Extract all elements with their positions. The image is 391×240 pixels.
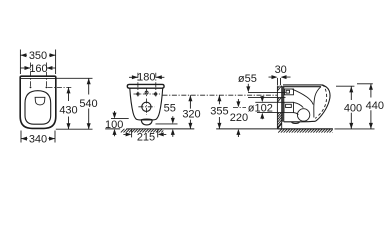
dim 320 line (189, 95, 191, 129)
dim 220 arrows (outside) (237, 99, 239, 137)
side outlet bump under pan (292, 122, 300, 124)
dim 400 line (350, 86, 352, 128)
svg-text:340: 340 (29, 133, 47, 145)
side seat top line (283, 84, 322, 86)
side floor line (277, 128, 333, 130)
hole-row short centerline (134, 93, 161, 95)
plan inner top line (21, 77, 55, 79)
front fixing centerline left (vertical) (137, 73, 139, 97)
dim 430 line (68, 87, 70, 129)
front small inlet crosshair circle (145, 91, 148, 94)
ø55 inlet pipe (248, 92, 286, 97)
dim 440 line (370, 84, 372, 129)
side pan nose outline (315, 85, 330, 122)
dim 440 top extension (357, 83, 373, 85)
side pan top edge (282, 86, 321, 88)
dim 160 arrows (outside, pointing inward) (25, 66, 53, 70)
svg-text:430: 430 (59, 104, 77, 116)
svg-text:355: 355 (210, 106, 228, 118)
ø55 arrow (247, 84, 249, 89)
svg-text:540: 540 (79, 98, 97, 110)
ø102 axis tick at 220 (233, 106, 246, 108)
side pan bottom (284, 120, 316, 123)
plan fixing centerline left (vertical dash-dot) (30, 63, 32, 88)
dim 340 extension right (54, 131, 56, 143)
plan hole-row centerline (horizontal dash-dot) (48, 86, 72, 88)
front outlet crosshair circle (142, 102, 151, 111)
dim 100 extension line (body underside left) (111, 118, 129, 120)
dim 160 leader left (20, 67, 30, 69)
plan seat opening inner ring (25, 91, 51, 125)
dim 540 line (88, 78, 90, 129)
front fixing hole right (155, 93, 157, 95)
long horizontal centerline (inlet axis across views) (163, 94, 278, 96)
plan fixing hole dot left (30, 87, 32, 89)
svg-text:55: 55 (164, 103, 176, 115)
svg-text:350: 350 (29, 50, 47, 62)
front body outline (130, 88, 163, 120)
dim 160 leader right (46, 67, 55, 69)
svg-text:30: 30 (275, 64, 287, 76)
side outlet box (284, 102, 294, 112)
svg-text:320: 320 (182, 108, 200, 120)
svg-text:215: 215 (137, 132, 155, 144)
dim 215 extension left (131, 129, 133, 137)
side duct bottom curve (294, 113, 299, 115)
dim 30 extension lines (278, 78, 281, 85)
svg-text:220: 220 (230, 112, 248, 124)
side bowl inner curve (293, 89, 314, 104)
dim 215 leaders+arrows (outside) (123, 133, 166, 135)
side fixing bracket box (285, 89, 294, 95)
dim 55 extension line (mouth underside right) (156, 123, 178, 125)
front fixing centerline right (vertical) (155, 73, 157, 97)
plan fixing hole dot right (46, 87, 48, 89)
front outlet mouth (141, 119, 152, 125)
plan bottom extension (shared by 430/540) (56, 128, 93, 130)
front floor hatching (121, 129, 164, 133)
svg-text:100: 100 (105, 119, 123, 131)
floor datum line (105, 128, 277, 130)
side trap loop (297, 109, 309, 121)
floor extension to right (335, 128, 375, 130)
front seat top bar (127, 84, 164, 88)
ø102 outlet extension lines (255, 102, 284, 112)
dim 350 arrows (20, 54, 55, 56)
svg-text:ø55: ø55 (238, 73, 257, 85)
plan pan outer outline (20, 76, 56, 128)
dim 55 arrows (outside) (172, 116, 174, 137)
dim 180 arrows (outside pointing inward) (132, 75, 162, 79)
svg-text:400: 400 (344, 102, 362, 114)
dim 180 leaders (129, 76, 164, 78)
wall hatching (277, 86, 281, 129)
side floor hatching (278, 129, 332, 133)
plan fixing centerline right (vertical dash-dot) (45, 63, 47, 88)
ø102 arrows (outside) (261, 96, 263, 119)
side inner rim curve (314, 87, 321, 118)
side duct top curve (294, 102, 304, 107)
dim 340 line+arrows (21, 138, 55, 140)
front fixing hole left (137, 93, 139, 95)
dim 355 line (218, 95, 220, 129)
dim 340 extension left (20, 131, 22, 143)
svg-text:160: 160 (29, 63, 47, 75)
side hidden rim (dashed) (315, 84, 326, 118)
svg-text:440: 440 (366, 100, 384, 112)
svg-text:ø102: ø102 (248, 102, 273, 114)
dim 100 arrows (outside) (114, 111, 116, 136)
plan inner cup detail (35, 97, 45, 105)
wall strip outline (277, 86, 281, 129)
svg-text:180: 180 (137, 72, 155, 84)
side pan back face (282, 87, 283, 122)
dim 400 top extension (336, 85, 354, 87)
dim 540 top extension (57, 77, 93, 79)
dim 30 leaders+arrows (outside) (269, 76, 291, 78)
dim 215 extension right (157, 129, 159, 137)
dim 350 extension right (55, 50, 57, 75)
dim 350 extension left (19, 50, 21, 75)
